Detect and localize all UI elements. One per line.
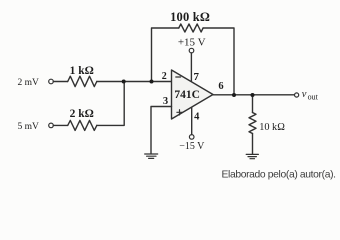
svg-text:10 kΩ: 10 kΩ	[259, 122, 285, 133]
svg-text:4: 4	[194, 111, 200, 122]
svg-text:−15 V: −15 V	[179, 141, 205, 152]
svg-text:6: 6	[218, 81, 223, 92]
svg-text:2 kΩ: 2 kΩ	[70, 108, 94, 120]
svg-text:2: 2	[162, 71, 167, 82]
svg-text:100 kΩ: 100 kΩ	[170, 10, 210, 24]
svg-text:2 mV: 2 mV	[18, 78, 40, 88]
svg-text:out: out	[308, 93, 319, 102]
svg-text:+15 V: +15 V	[178, 37, 206, 49]
svg-text:5 mV: 5 mV	[18, 122, 40, 132]
svg-text:3: 3	[163, 96, 168, 107]
svg-text:v: v	[302, 89, 307, 100]
svg-text:Elaborado pelo(a) autor(a).: Elaborado pelo(a) autor(a).	[222, 169, 336, 180]
svg-text:741C: 741C	[174, 89, 200, 101]
svg-text:7: 7	[193, 71, 199, 83]
svg-text:1 kΩ: 1 kΩ	[70, 65, 94, 77]
